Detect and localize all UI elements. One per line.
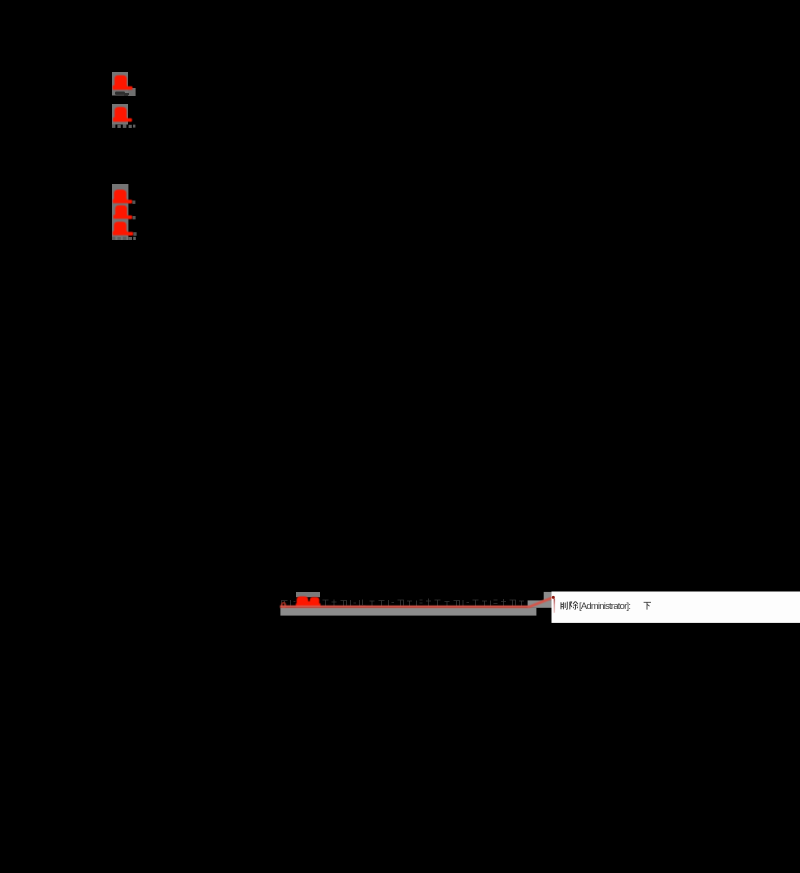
dotted underline below block 3 bbox=[112, 237, 136, 240]
balloon text: 删 bbox=[561, 602, 567, 610]
deleted sentence: faint glyph outlines bbox=[282, 599, 525, 607]
highlight strip of tracked-change block 3 (three chars) bbox=[112, 184, 128, 240]
red bold deleted chars bbox=[296, 596, 321, 607]
balloon red anchor dot bbox=[552, 596, 555, 599]
red bold character 3b bbox=[113, 205, 132, 219]
balloon text: 除 bbox=[570, 601, 578, 609]
red bold character 3a bbox=[113, 190, 132, 204]
gray highlight band under struck text bbox=[280, 608, 536, 616]
dotted underline below block 2 bbox=[112, 124, 135, 128]
red strikethrough line and connector to balloon bbox=[280, 598, 553, 607]
small red ring at line start bbox=[282, 603, 286, 608]
faint glyph residue under char 1 bbox=[115, 92, 129, 96]
gray nibs right of block 3 bbox=[132, 201, 136, 236]
gray highlight staircase near balloon bbox=[528, 592, 552, 608]
highlight above red deleted chars bbox=[296, 592, 320, 597]
svg-text:[Administrator]:: [Administrator]: bbox=[579, 601, 631, 611]
red bold character 3c bbox=[113, 222, 134, 236]
red bold character 1 bbox=[113, 75, 133, 89]
highlight rect of tracked-change char block 2 bbox=[112, 104, 128, 125]
balloon pink change-bar bbox=[554, 599, 556, 613]
comment balloon bbox=[552, 592, 800, 623]
highlight rect of tracked-change char block 1 bbox=[112, 72, 136, 96]
balloon text: 下 bbox=[644, 602, 651, 609]
red bold character 2 bbox=[113, 107, 132, 122]
